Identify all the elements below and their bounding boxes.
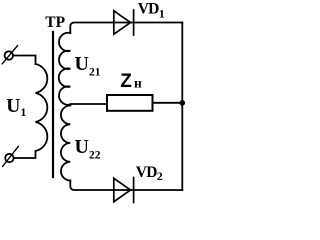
primary winding U1	[36, 64, 48, 151]
wire primary bottom to terminal	[14, 151, 35, 158]
load resistor Zn box	[107, 95, 153, 111]
diode VD1	[114, 10, 134, 35]
svg-text:VD1: VD1	[138, 1, 165, 21]
terminal top slash	[2, 46, 17, 64]
transformer core	[52, 32, 54, 177]
terminal input bottom	[5, 154, 13, 162]
diode VD2	[114, 178, 134, 203]
secondary winding U22	[61, 106, 70, 181]
wire center tap to load	[70, 103, 107, 105]
wire right rail	[181, 23, 183, 191]
wire load to right rail	[153, 102, 183, 104]
svg-text:U21: U21	[75, 53, 101, 79]
svg-text:U22: U22	[75, 136, 101, 162]
terminal input top	[5, 51, 13, 59]
terminal bottom slash	[3, 146, 19, 166]
wire bottom rail	[70, 181, 182, 191]
svg-text:н: н	[134, 76, 142, 91]
wire top rail	[70, 23, 182, 34]
svg-text:VD2: VD2	[136, 164, 163, 183]
junction node dot	[180, 100, 186, 106]
svg-text:Z: Z	[120, 71, 132, 92]
wire top-left to primary	[13, 56, 35, 65]
svg-text:ТР: ТР	[45, 14, 65, 31]
svg-text:U1: U1	[6, 96, 26, 119]
secondary winding U21	[59, 33, 71, 105]
